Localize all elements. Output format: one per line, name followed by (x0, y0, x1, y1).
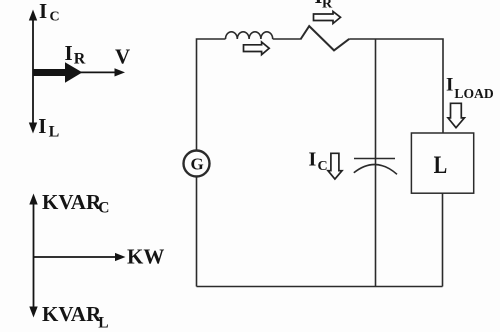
svg-text:I: I (65, 41, 73, 65)
svg-text:KVAR: KVAR (42, 190, 102, 214)
svg-text:L: L (98, 315, 108, 332)
svg-text:LOAD: LOAD (454, 86, 493, 101)
svg-text:C: C (50, 10, 60, 25)
svg-text:I: I (446, 75, 453, 96)
svg-text:KVAR: KVAR (42, 302, 102, 326)
svg-text:L: L (434, 152, 448, 179)
svg-text:R: R (74, 51, 86, 68)
svg-text:L: L (49, 123, 60, 140)
svg-text:R: R (322, 0, 333, 12)
svg-text:I: I (39, 0, 47, 23)
svg-text:C: C (318, 159, 328, 174)
svg-text:G: G (191, 155, 204, 174)
svg-text:KW: KW (127, 245, 164, 269)
svg-text:I: I (38, 114, 46, 138)
svg-text:C: C (98, 200, 109, 217)
svg-text:I: I (309, 149, 317, 171)
svg-text:V: V (115, 45, 130, 69)
